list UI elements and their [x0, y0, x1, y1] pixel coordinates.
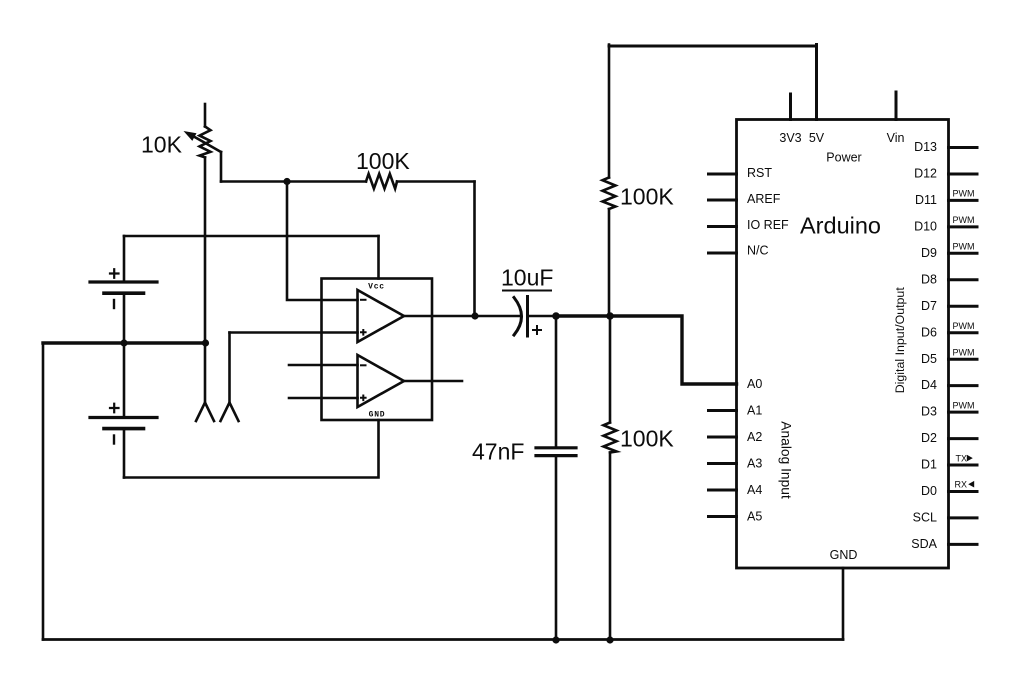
battery B1 positive plate [90, 280, 157, 283]
pin D10 [949, 225, 978, 228]
pin D0 [949, 490, 978, 493]
capacitor C1 10uF right lead [528, 315, 557, 318]
wire feedback drop to output node [473, 182, 476, 317]
wire non-inverting line to probe foot [228, 333, 231, 403]
wire U1B output stub [404, 380, 462, 383]
pin D9 [949, 252, 978, 255]
svg-text:D7: D7 [921, 299, 937, 313]
pin AREF [709, 199, 737, 202]
wire R4 to output node [397, 180, 475, 183]
op-amp U1 package box [322, 279, 433, 421]
svg-text:IO REF: IO REF [747, 218, 789, 232]
svg-text:D6: D6 [921, 325, 937, 339]
svg-text:D12: D12 [914, 167, 937, 181]
label 10uF underline [503, 290, 551, 292]
wire node A to inverting input [287, 182, 358, 301]
svg-text:RX: RX [955, 479, 968, 489]
capacitor C1 10uF left lead [475, 315, 519, 318]
capacitor C2 47nF bottom plate [536, 454, 576, 457]
wire left vertical return [42, 343, 45, 640]
op-amp U1A minus sign [361, 299, 366, 301]
pin A1 [709, 409, 737, 412]
wire mid rail y343 [43, 341, 206, 344]
svg-text:Digital Input/Output: Digital Input/Output [893, 287, 907, 394]
svg-text:SCL: SCL [913, 511, 937, 525]
potentiometer R1 zigzag [200, 127, 211, 158]
svg-text:PWM: PWM [953, 242, 975, 252]
battery B1 negative plate [104, 291, 144, 295]
pin D2 [949, 437, 978, 440]
svg-text:47nF: 47nF [472, 439, 524, 465]
junction battery mid node [120, 339, 127, 346]
battery B1 minus tick [113, 300, 115, 308]
junction divider node [606, 312, 614, 320]
svg-text:5V: 5V [809, 131, 825, 145]
svg-text:Arduino: Arduino [800, 213, 881, 239]
wire Arduino GND pin drop [842, 568, 845, 640]
battery B1 plus sign mark [110, 269, 119, 278]
junction R3 ground node [606, 636, 613, 643]
wire U1A output [404, 315, 475, 318]
svg-text:PWM: PWM [953, 189, 975, 199]
battery B1 bottom lead [123, 293, 126, 343]
wire battery positive to op-amp VCC rail [124, 235, 379, 238]
svg-text:Vin: Vin [887, 131, 905, 145]
svg-text:10uF: 10uF [501, 265, 553, 291]
capacitor C2 47nF top plate [536, 446, 576, 449]
svg-text:Power: Power [826, 151, 861, 165]
resistor R3 100K bottom lead [609, 453, 612, 641]
svg-text:PWM: PWM [953, 347, 975, 357]
capacitor C2 47nF bottom lead [555, 456, 558, 640]
op-amp U1B plus sign [361, 396, 366, 401]
wire U1B non-inverting input stub [289, 397, 358, 400]
pin D11 [949, 199, 978, 202]
svg-text:A1: A1 [747, 404, 762, 418]
svg-text:Analog Input: Analog Input [779, 421, 794, 499]
pin D3 [949, 411, 978, 414]
probe foot chevron left [196, 403, 214, 422]
junction pot mid node [202, 339, 209, 346]
wire battery negative to op-amp GND [124, 420, 379, 478]
pin Vin stub [895, 92, 898, 120]
svg-text:GND: GND [369, 411, 386, 420]
potentiometer R1 arrowhead [184, 131, 197, 141]
capacitor C1 plus sign [533, 326, 541, 334]
junction 47nF ground node [552, 636, 559, 643]
probe foot chevron right [221, 403, 239, 422]
wire output node to junction [556, 314, 610, 317]
resistor R3 100K zigzag [604, 423, 617, 453]
resistor R2 100K bottom lead [608, 209, 611, 316]
potentiometer R1 top lead [204, 104, 207, 127]
svg-text:D3: D3 [921, 405, 937, 419]
pin D7 [949, 305, 978, 308]
wire node to R3 [609, 316, 612, 423]
svg-text:Vcc: Vcc [368, 283, 385, 292]
pin RST [709, 173, 737, 176]
wire VCC pin into op-amp box [377, 236, 380, 279]
svg-text:PWM: PWM [953, 400, 975, 410]
svg-text:PWM: PWM [953, 215, 975, 225]
battery B2 plus sign mark [110, 404, 119, 413]
capacitor C1 10uF curved plate [514, 298, 522, 336]
pin D1 [949, 464, 978, 467]
battery B2 top lead [123, 343, 126, 417]
svg-text:AREF: AREF [747, 192, 781, 206]
wire wiper tap down [220, 152, 223, 182]
capacitor C2 47nF top lead [555, 316, 558, 447]
junction op-amp output node [471, 312, 478, 319]
op-amp U1B minus sign [361, 364, 366, 366]
pin N/C [709, 252, 737, 255]
pin A4 [709, 489, 737, 492]
capacitor C1 10uF straight plate [526, 297, 529, 337]
wire pot line to probe foot [204, 343, 207, 402]
svg-text:A0: A0 [747, 377, 762, 391]
svg-text:10K: 10K [141, 132, 183, 158]
pin SDA [949, 543, 978, 546]
svg-text:D4: D4 [921, 378, 937, 392]
pin IO REF [709, 225, 737, 228]
pin A2 [709, 436, 737, 439]
junction cap output node [552, 312, 560, 320]
pin D13 [949, 146, 978, 149]
pin A5 [709, 515, 737, 518]
battery B2 minus tick [113, 436, 115, 444]
svg-text:TX: TX [956, 453, 968, 463]
svg-text:100K: 100K [356, 148, 410, 174]
wire ground bottom rail [43, 638, 843, 641]
svg-text:D0: D0 [921, 484, 937, 498]
pin D12 [949, 173, 978, 176]
wire 5V pin drop [815, 45, 818, 120]
resistor R2 100K top lead [608, 45, 611, 178]
potentiometer R1 bottom lead [204, 157, 207, 343]
svg-text:D1: D1 [921, 458, 937, 472]
svg-text:D11: D11 [915, 193, 937, 207]
pin TX arrow glyph [967, 455, 973, 462]
pin D4 [949, 384, 978, 387]
svg-text:D13: D13 [914, 140, 937, 154]
svg-text:N/C: N/C [747, 243, 769, 257]
wire top rail from R1 to 5V [609, 45, 817, 48]
battery B2 bottom lead [123, 429, 126, 478]
svg-text:D5: D5 [921, 352, 937, 366]
svg-text:A3: A3 [747, 456, 762, 470]
svg-text:D10: D10 [914, 220, 937, 234]
op-amp U1A plus sign [361, 330, 366, 335]
resistor R4 100K feedback zigzag [366, 174, 397, 189]
battery B2 positive plate [90, 416, 157, 419]
svg-text:D9: D9 [921, 246, 937, 260]
junction node A [283, 178, 290, 185]
pin RX arrow glyph [968, 481, 974, 488]
battery B2 negative plate [104, 427, 144, 431]
svg-text:D8: D8 [921, 272, 937, 286]
svg-text:A4: A4 [747, 483, 762, 497]
svg-text:RST: RST [747, 166, 772, 180]
svg-text:GND: GND [830, 548, 858, 562]
wire U1B inverting input stub [289, 364, 358, 367]
Arduino board outline [737, 120, 949, 569]
svg-text:D2: D2 [921, 431, 937, 445]
op-amp U1A triangle [358, 290, 405, 342]
svg-text:3V3: 3V3 [779, 131, 801, 145]
pin D5 [949, 358, 978, 361]
svg-text:SDA: SDA [911, 537, 937, 551]
battery B1 top lead [123, 236, 126, 282]
wire wiper tap to node A [221, 180, 366, 183]
pin D8 [949, 278, 978, 281]
svg-text:A5: A5 [747, 509, 762, 523]
pin D6 [949, 331, 978, 334]
svg-text:PWM: PWM [953, 321, 975, 331]
svg-text:100K: 100K [620, 184, 674, 210]
svg-text:100K: 100K [620, 426, 674, 452]
pin A3 [709, 462, 737, 465]
resistor R2 100K zigzag [603, 178, 616, 210]
wire junction to A0 elbow [610, 316, 737, 384]
op-amp U1B triangle [358, 355, 405, 407]
svg-text:A2: A2 [747, 430, 762, 444]
pin 3V3 stub [789, 94, 792, 120]
pin SCL [949, 516, 978, 519]
wire non-inverting input feed [230, 331, 358, 334]
potentiometer R1 wiper arrow shaft [189, 134, 221, 152]
